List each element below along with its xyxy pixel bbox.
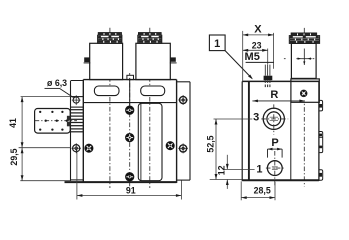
mounting screw body right [166, 142, 174, 150]
svg-text:R: R [270, 89, 278, 101]
body left edge [82, 80, 84, 183]
side tab top [319, 100, 323, 111]
connector pin block [35, 109, 77, 134]
dim 41 extension top [21, 96, 71, 98]
recess rounded rectangle [138, 103, 162, 180]
dim extensions X/23 [242, 31, 244, 81]
centerline valve mid axis [129, 73, 131, 186]
body bottom [65, 181, 177, 183]
connector cap B [138, 33, 162, 44]
svg-text:28,5: 28,5 [254, 185, 271, 195]
svg-text:12: 12 [217, 165, 227, 175]
svg-text:X: X [254, 23, 262, 35]
solenoid coil A body [90, 43, 123, 79]
svg-text:41: 41 [8, 118, 18, 128]
svg-text:91: 91 [126, 186, 136, 196]
svg-text:1: 1 [256, 164, 262, 176]
recess inner line [140, 103, 142, 180]
dim 12 [226, 155, 228, 170]
valve screw top [126, 106, 134, 114]
screw hole right end plate top [178, 95, 188, 105]
dim 52,5 extension [214, 118, 253, 120]
right end plate [177, 82, 190, 180]
dim extension middle [19, 147, 71, 149]
dim line 41 / 29,5 [21, 97, 23, 181]
right connector cap [289, 33, 319, 43]
dim 91 extensions [76, 150, 78, 200]
knurled override knob [71, 110, 84, 132]
connector latch bar [67, 116, 70, 121]
svg-text:3: 3 [253, 112, 259, 124]
connector cap A [98, 33, 122, 44]
plate slot left [94, 86, 119, 96]
coil B side clip [170, 57, 176, 61]
svg-text:52,5: 52,5 [205, 135, 215, 152]
solenoid base block [291, 79, 319, 102]
dim extension bottom [20, 180, 70, 182]
dim 28,5 [240, 181, 242, 200]
P diameter dim [268, 149, 283, 158]
right coil body [291, 43, 316, 78]
svg-text:M5: M5 [245, 51, 260, 63]
leader o6,3 [45, 87, 60, 89]
svg-text:P: P [271, 137, 278, 149]
centerline left solenoid A axis [109, 28, 111, 188]
M5 thread hole [265, 65, 270, 89]
centerline right view solenoid axis [303, 28, 305, 187]
dim 12 extension [223, 168, 255, 170]
valve screw middle [126, 133, 134, 141]
port 3 [263, 108, 284, 129]
pilot port hole o6,3 [72, 95, 81, 105]
svg-text:1: 1 [214, 38, 220, 50]
bridge between coils [127, 75, 134, 79]
balloon leader [225, 51, 252, 79]
body right edge [176, 80, 178, 183]
centerline left solenoid B axis [149, 28, 151, 188]
dim line 91 [77, 195, 181, 197]
valve screw bottom [126, 173, 134, 181]
left end plate [71, 81, 84, 182]
coil A side clip [84, 57, 90, 62]
port 1 centerlines [274, 151, 276, 187]
plate slot right [141, 86, 165, 96]
right view body [242, 81, 319, 180]
port 3 centerlines [273, 104, 275, 134]
top plate [83, 79, 176, 81]
side tab bottom [319, 170, 323, 180]
R axis line with arrows [252, 100, 305, 102]
mounting screw body left [85, 144, 93, 152]
solenoid coil B body [136, 43, 170, 79]
side tab middle [319, 132, 323, 153]
svg-text:29,5: 29,5 [9, 148, 19, 165]
port 1 (P) [267, 161, 282, 176]
dim 52,5 [215, 119, 217, 180]
screw hole right end plate bottom [178, 143, 188, 153]
base screw [300, 90, 307, 97]
wire mid axis solid [129, 78, 131, 107]
svg-text:23: 23 [252, 40, 262, 50]
svg-text:ø 6,3: ø 6,3 [47, 78, 67, 88]
balloon 1 [209, 35, 225, 51]
coil center mark [284, 49, 314, 66]
screw hole left end plate bottom [71, 143, 81, 153]
